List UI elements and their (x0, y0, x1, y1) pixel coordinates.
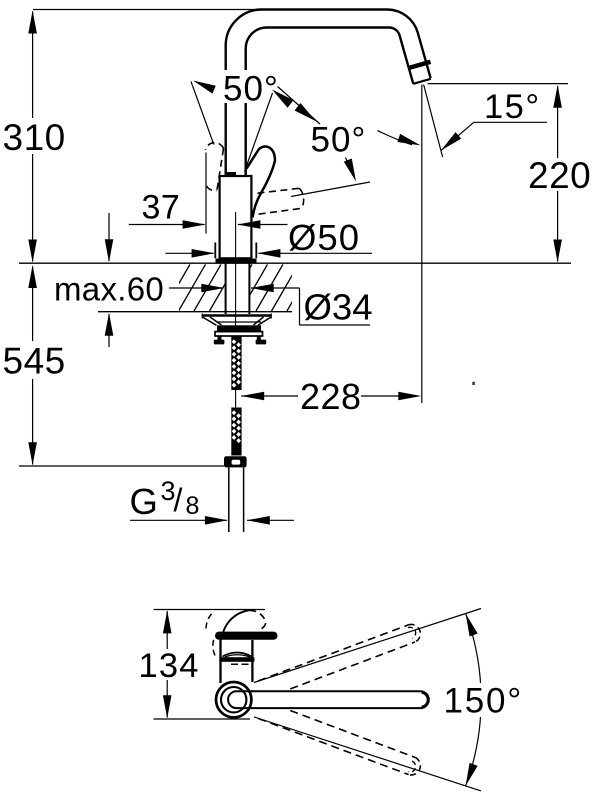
plan view: spout capsule (237, 691, 421, 708)
plan view: upper dashed spout position (258, 625, 408, 681)
plan view: left dashed arc (213, 640, 217, 659)
dimension 545 (32, 267, 34, 465)
plan view: lever hood curve (223, 653, 252, 657)
faucet spout outer contour (226, 10, 431, 177)
svg-text:Ø34: Ø34 (304, 286, 373, 327)
svg-text:228: 228 (300, 376, 362, 417)
dimension D50 (166, 252, 373, 254)
svg-text:50°: 50° (223, 69, 279, 108)
mounting nut (217, 325, 261, 331)
svg-text:15°: 15° (484, 88, 541, 126)
plan view: top extension line (154, 609, 266, 611)
spout tip end edge (413, 79, 431, 84)
countertop hatching right (225, 264, 314, 311)
plan view: lever tip dashed curve (249, 610, 266, 630)
plan view: lower dashed spout position (290, 711, 415, 758)
plan view: swivel joint circles (216, 682, 251, 717)
bracket feet (218, 336, 222, 340)
flexible hose segment 2 (231, 408, 241, 456)
svg-text:50°: 50° (311, 120, 367, 159)
countertop bottom line (98, 311, 292, 313)
svg-text:134: 134 (139, 647, 200, 685)
svg-text:310: 310 (3, 117, 66, 158)
mounting cone (203, 317, 272, 325)
plan view: escutcheon bar (219, 657, 254, 662)
svg-text:G: G (130, 481, 158, 522)
cartridge tab on body top (227, 172, 236, 177)
countertop hatching left (148, 264, 253, 311)
dimension G3/8 (130, 519, 294, 521)
svg-text:max.60: max.60 (54, 271, 164, 308)
lever dashed vertical position (217, 149, 224, 191)
plan view: upper-left dashed arc (206, 611, 215, 629)
wire top reference line (33, 9, 263, 11)
shank below counter (226, 264, 250, 315)
svg-text:150°: 150° (444, 682, 524, 721)
lever solid position outline (246, 146, 275, 217)
dimension 37 (205, 153, 207, 234)
escutcheon flange plate (216, 259, 257, 263)
hose end nut G3/8 (224, 456, 247, 467)
spout aerator band (409, 62, 431, 68)
stray printed dot (472, 382, 475, 385)
svg-text:220: 220 (528, 155, 591, 196)
dimension 310 (32, 12, 34, 262)
svg-text:Ø50: Ø50 (288, 217, 360, 258)
tail pipe (229, 468, 244, 533)
dimension D34 (169, 288, 370, 325)
faucet body rectangle (220, 176, 252, 258)
svg-text:37: 37 (142, 188, 181, 226)
svg-text:/: / (174, 482, 183, 518)
svg-text:8: 8 (186, 492, 200, 520)
plan view: lever tip solid curve (223, 610, 249, 632)
svg-text:545: 545 (3, 341, 66, 382)
dimension 228 (421, 85, 423, 404)
plan view: bottom extension line (154, 718, 251, 720)
mounting bracket bar (215, 332, 263, 336)
dimension 15deg (424, 85, 443, 158)
dimension 150deg arc (466, 614, 482, 786)
dimension 134 (166, 611, 168, 718)
mounting washer plate (202, 314, 272, 316)
flexible hose segment 1 (231, 336, 241, 390)
plan view: body walls (221, 639, 253, 683)
centerline (235, 212, 237, 408)
faucet spout inner contour (246, 27, 414, 176)
dimension 50deg first (221, 70, 282, 103)
line at hose end (545 reference) (19, 465, 224, 467)
dimension 50deg second (245, 93, 273, 172)
plan view: lever bar (215, 632, 278, 640)
dimension 220 (428, 83, 568, 85)
dimension max.60 (108, 213, 110, 347)
plan view: small dashes under bar (231, 663, 249, 665)
escutcheon collar (215, 243, 256, 259)
lever dashed horizontal position (258, 188, 299, 193)
countertop surface line (19, 262, 571, 264)
dimension 150deg legs (254, 609, 481, 683)
